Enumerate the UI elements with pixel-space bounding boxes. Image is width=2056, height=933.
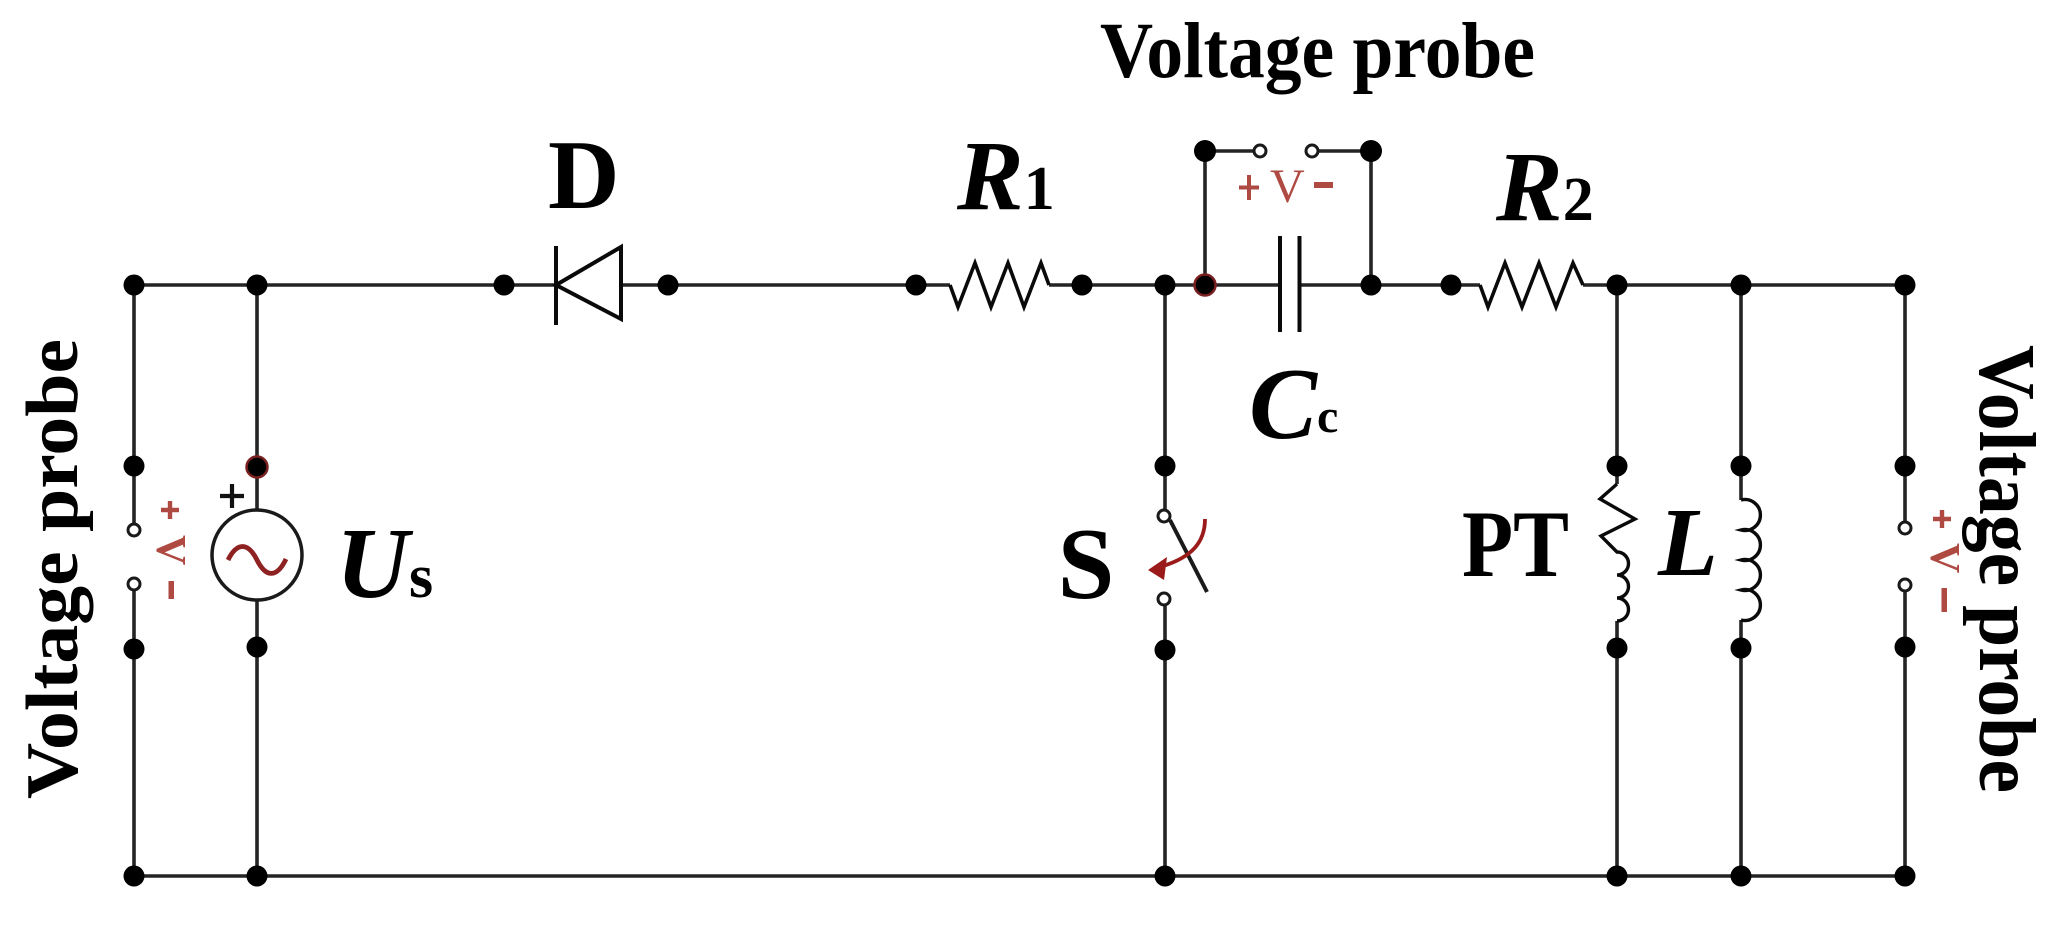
junction dot L upper terminal (1731, 456, 1752, 477)
wire left probe branch lower (132, 590, 136, 876)
junction dot diode cathode lead (658, 275, 679, 296)
wire PT branch lower (1615, 621, 1619, 876)
label + V - (top probe) (1239, 160, 1333, 213)
junction dot top-right corner (1895, 275, 1916, 296)
junction dot bottom-right corner (1895, 866, 1916, 887)
inductor L coil (1741, 500, 1760, 621)
junction dot source negative terminal (247, 637, 268, 658)
svg-text:V: V (1921, 543, 1967, 573)
junction dot top-left corner (124, 275, 145, 296)
junction dot left probe lower (124, 639, 145, 660)
switch S toggle arrow (1148, 519, 1205, 580)
junction dot R2 left lead (1441, 275, 1462, 296)
top probe terminal circle left (1254, 145, 1266, 157)
label + V - (left probe, rotated) (147, 501, 193, 599)
junction dot top probe right end (1360, 140, 1382, 162)
wire PT branch upper (1615, 285, 1619, 484)
svg-text:V: V (147, 535, 193, 565)
svg-text:PT: PT (1462, 491, 1569, 597)
junction dot PT lower terminal (1607, 638, 1628, 659)
switch lower contact circle (1158, 593, 1170, 605)
wire left probe branch upper (132, 285, 136, 524)
junction dot L bottom rail (1731, 866, 1752, 887)
junction dot source top node (247, 275, 268, 296)
svg-text:L: L (1657, 489, 1718, 597)
junction dot L lower terminal (1731, 638, 1752, 659)
wire L branch upper (1739, 285, 1743, 500)
wire top probe bar left (1205, 149, 1253, 153)
wire switch branch lower (1163, 606, 1167, 876)
wire right probe branch upper (1903, 285, 1907, 521)
junction dot capacitor right node (1361, 275, 1382, 296)
svg-text:D: D (548, 121, 620, 230)
junction dot right probe lower (1895, 637, 1916, 658)
wire top probe left drop (1203, 151, 1207, 285)
top probe terminal circle right (1306, 145, 1318, 157)
junction dot PT bottom rail (1607, 866, 1628, 887)
junction dot source positive terminal (247, 457, 268, 478)
capacitor Cc (1280, 236, 1300, 332)
wire top rail segment 2 (diode to R1) (621, 283, 950, 287)
junction dot diode anode lead (494, 275, 515, 296)
switch S blade (1170, 520, 1207, 592)
junction dot capacitor left node (1195, 275, 1216, 296)
right probe terminal circle lower (1899, 579, 1911, 591)
resistor R2 (1480, 263, 1583, 307)
wire right probe branch lower (1903, 592, 1907, 876)
junction dot top probe left end (1194, 140, 1216, 162)
wire source branch lower (255, 599, 259, 876)
junction dot bottom-left corner (124, 866, 145, 887)
wire L branch lower (1739, 620, 1743, 876)
svg-text:Voltage probe: Voltage probe (1100, 8, 1535, 95)
resistor R1 (950, 263, 1049, 307)
source polarity plus sign (220, 484, 244, 508)
junction dot PT upper terminal (1607, 456, 1628, 477)
wire source branch upper (255, 285, 259, 512)
left probe terminal circle upper (128, 524, 140, 536)
svg-text:Voltage probe: Voltage probe (12, 339, 94, 799)
PT winding (resistor + coil) (1600, 484, 1635, 621)
wire top rail segment 5 (R2 to top-right corner) (1583, 283, 1905, 287)
wire top rail segment 4 (capacitor to R2) (1299, 283, 1480, 287)
junction dot R1 left lead (906, 275, 927, 296)
svg-text:S: S (1058, 508, 1115, 621)
junction dot right probe upper (1895, 456, 1916, 477)
switch upper contact circle (1158, 510, 1170, 522)
wire switch branch upper (1163, 285, 1167, 510)
wire top rail segment 3 (R1 to capacitor) (1049, 283, 1280, 287)
wire top rail segment 1 (134, 283, 556, 287)
junction dot left probe upper (124, 456, 145, 477)
junction dot R1 right lead (1072, 275, 1093, 296)
right probe terminal circle upper (1899, 522, 1911, 534)
junction dot switch bottom rail (1155, 866, 1176, 887)
wire bottom rail (134, 874, 1905, 878)
left probe terminal circle lower (128, 578, 140, 590)
svg-text:Voltage probe: Voltage probe (1962, 345, 2050, 793)
wire top probe bar right (1319, 149, 1371, 153)
svg-text:V: V (1270, 160, 1305, 213)
junction dot switch top node (1155, 275, 1176, 296)
junction dot L top node (1731, 275, 1752, 296)
junction dot switch lower terminal (1155, 640, 1176, 661)
junction dot R2 right / PT top node (1607, 275, 1628, 296)
AC voltage source U_s (212, 510, 302, 600)
wire top probe right drop (1369, 151, 1373, 285)
junction dot switch upper terminal (1155, 456, 1176, 477)
label + V - (right probe, rotated) (1921, 510, 1967, 612)
junction dot source bottom rail (247, 866, 268, 887)
diode D (556, 246, 621, 325)
